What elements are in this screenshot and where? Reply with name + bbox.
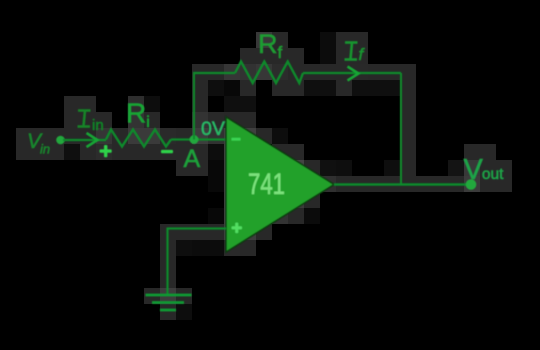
label If (345, 43, 358, 60)
wire non-inverting input vertical to ground (166, 228, 168, 296)
wire from Ri to inverting input (171, 138, 226, 140)
wire output (334, 183, 468, 185)
label minus polarity at Ri output (161, 150, 173, 153)
arrow If current direction (348, 67, 359, 81)
pin non-inverting input plus (232, 223, 243, 234)
svg-text:0V: 0V (201, 118, 225, 140)
wire feedback top left segment (193, 72, 235, 74)
node A summing junction (190, 135, 199, 144)
wire feedback right vertical down to output (400, 73, 402, 185)
svg-text:Ri: Ri (126, 98, 150, 132)
label Iin (78, 111, 91, 127)
op-amp U1 741 (226, 117, 334, 252)
wire input from Vin to Ri (63, 139, 106, 141)
wire feedback top right segment (303, 72, 401, 74)
node Vin input terminal (56, 136, 65, 145)
svg-text:A: A (184, 145, 201, 173)
resistor Ri (106, 130, 171, 147)
resistor Rf (235, 62, 303, 84)
label plus polarity at Ri input (100, 145, 112, 157)
pin inverting input minus (232, 138, 241, 141)
svg-text:in: in (92, 117, 104, 134)
wire non-inverting input horizontal (168, 227, 227, 229)
arrow Iin current direction (87, 133, 98, 147)
svg-text:741: 741 (248, 168, 285, 201)
ground (146, 295, 192, 310)
wire feedback left vertical from node A (193, 73, 195, 140)
node Vout output terminal (466, 179, 477, 190)
